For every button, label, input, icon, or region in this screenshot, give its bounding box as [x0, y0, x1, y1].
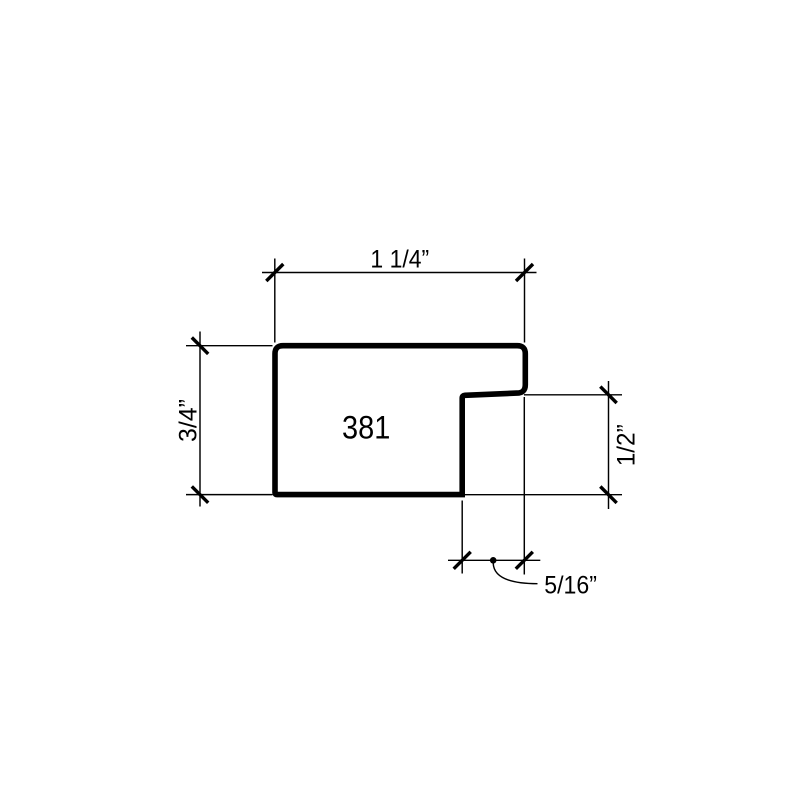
moulding profile 381 outline — [275, 346, 525, 495]
tick mark 5/16" left — [454, 552, 471, 569]
dimension line 3/4" — [199, 332, 201, 507]
extension line top-right (1 1/4" right witness) — [524, 259, 526, 343]
tick mark 1/2" bottom — [600, 487, 616, 503]
leader curve to 5/16" label — [493, 563, 537, 584]
extension line top-left (1 1/4" left witness) — [274, 259, 276, 343]
leader dot on 5/16" dimension line — [490, 557, 497, 564]
svg-text:3/4”: 3/4” — [175, 399, 203, 442]
dimension line 5/16" — [448, 559, 540, 561]
extension line left-top (3/4" top witness) — [186, 345, 273, 347]
extension line bottom-right (5/16" right witness) — [523, 397, 525, 575]
tick mark 1 1/4" left — [266, 264, 283, 281]
svg-text:1/2”: 1/2” — [613, 424, 641, 466]
extension line right-bottom (1/2" bottom witness) — [465, 494, 622, 496]
extension line right-top (1/2" top witness) — [524, 394, 622, 396]
svg-text:1 1/4”: 1 1/4” — [370, 246, 429, 274]
svg-text:381: 381 — [342, 410, 390, 446]
dimension line 1/2" — [608, 381, 610, 509]
tick mark 1 1/4" right — [516, 264, 533, 281]
tick mark 1/2" top — [600, 387, 616, 403]
dimension line 1 1/4" — [262, 272, 537, 274]
tick mark 3/4" bottom — [192, 486, 208, 502]
extension line bottom-left (5/16" left witness) — [461, 501, 463, 574]
svg-text:5/16”: 5/16” — [544, 571, 597, 599]
tick mark 3/4" top — [192, 338, 208, 354]
extension line left-bottom (3/4" bottom witness) — [186, 494, 273, 496]
tick mark 5/16" right — [516, 552, 533, 569]
